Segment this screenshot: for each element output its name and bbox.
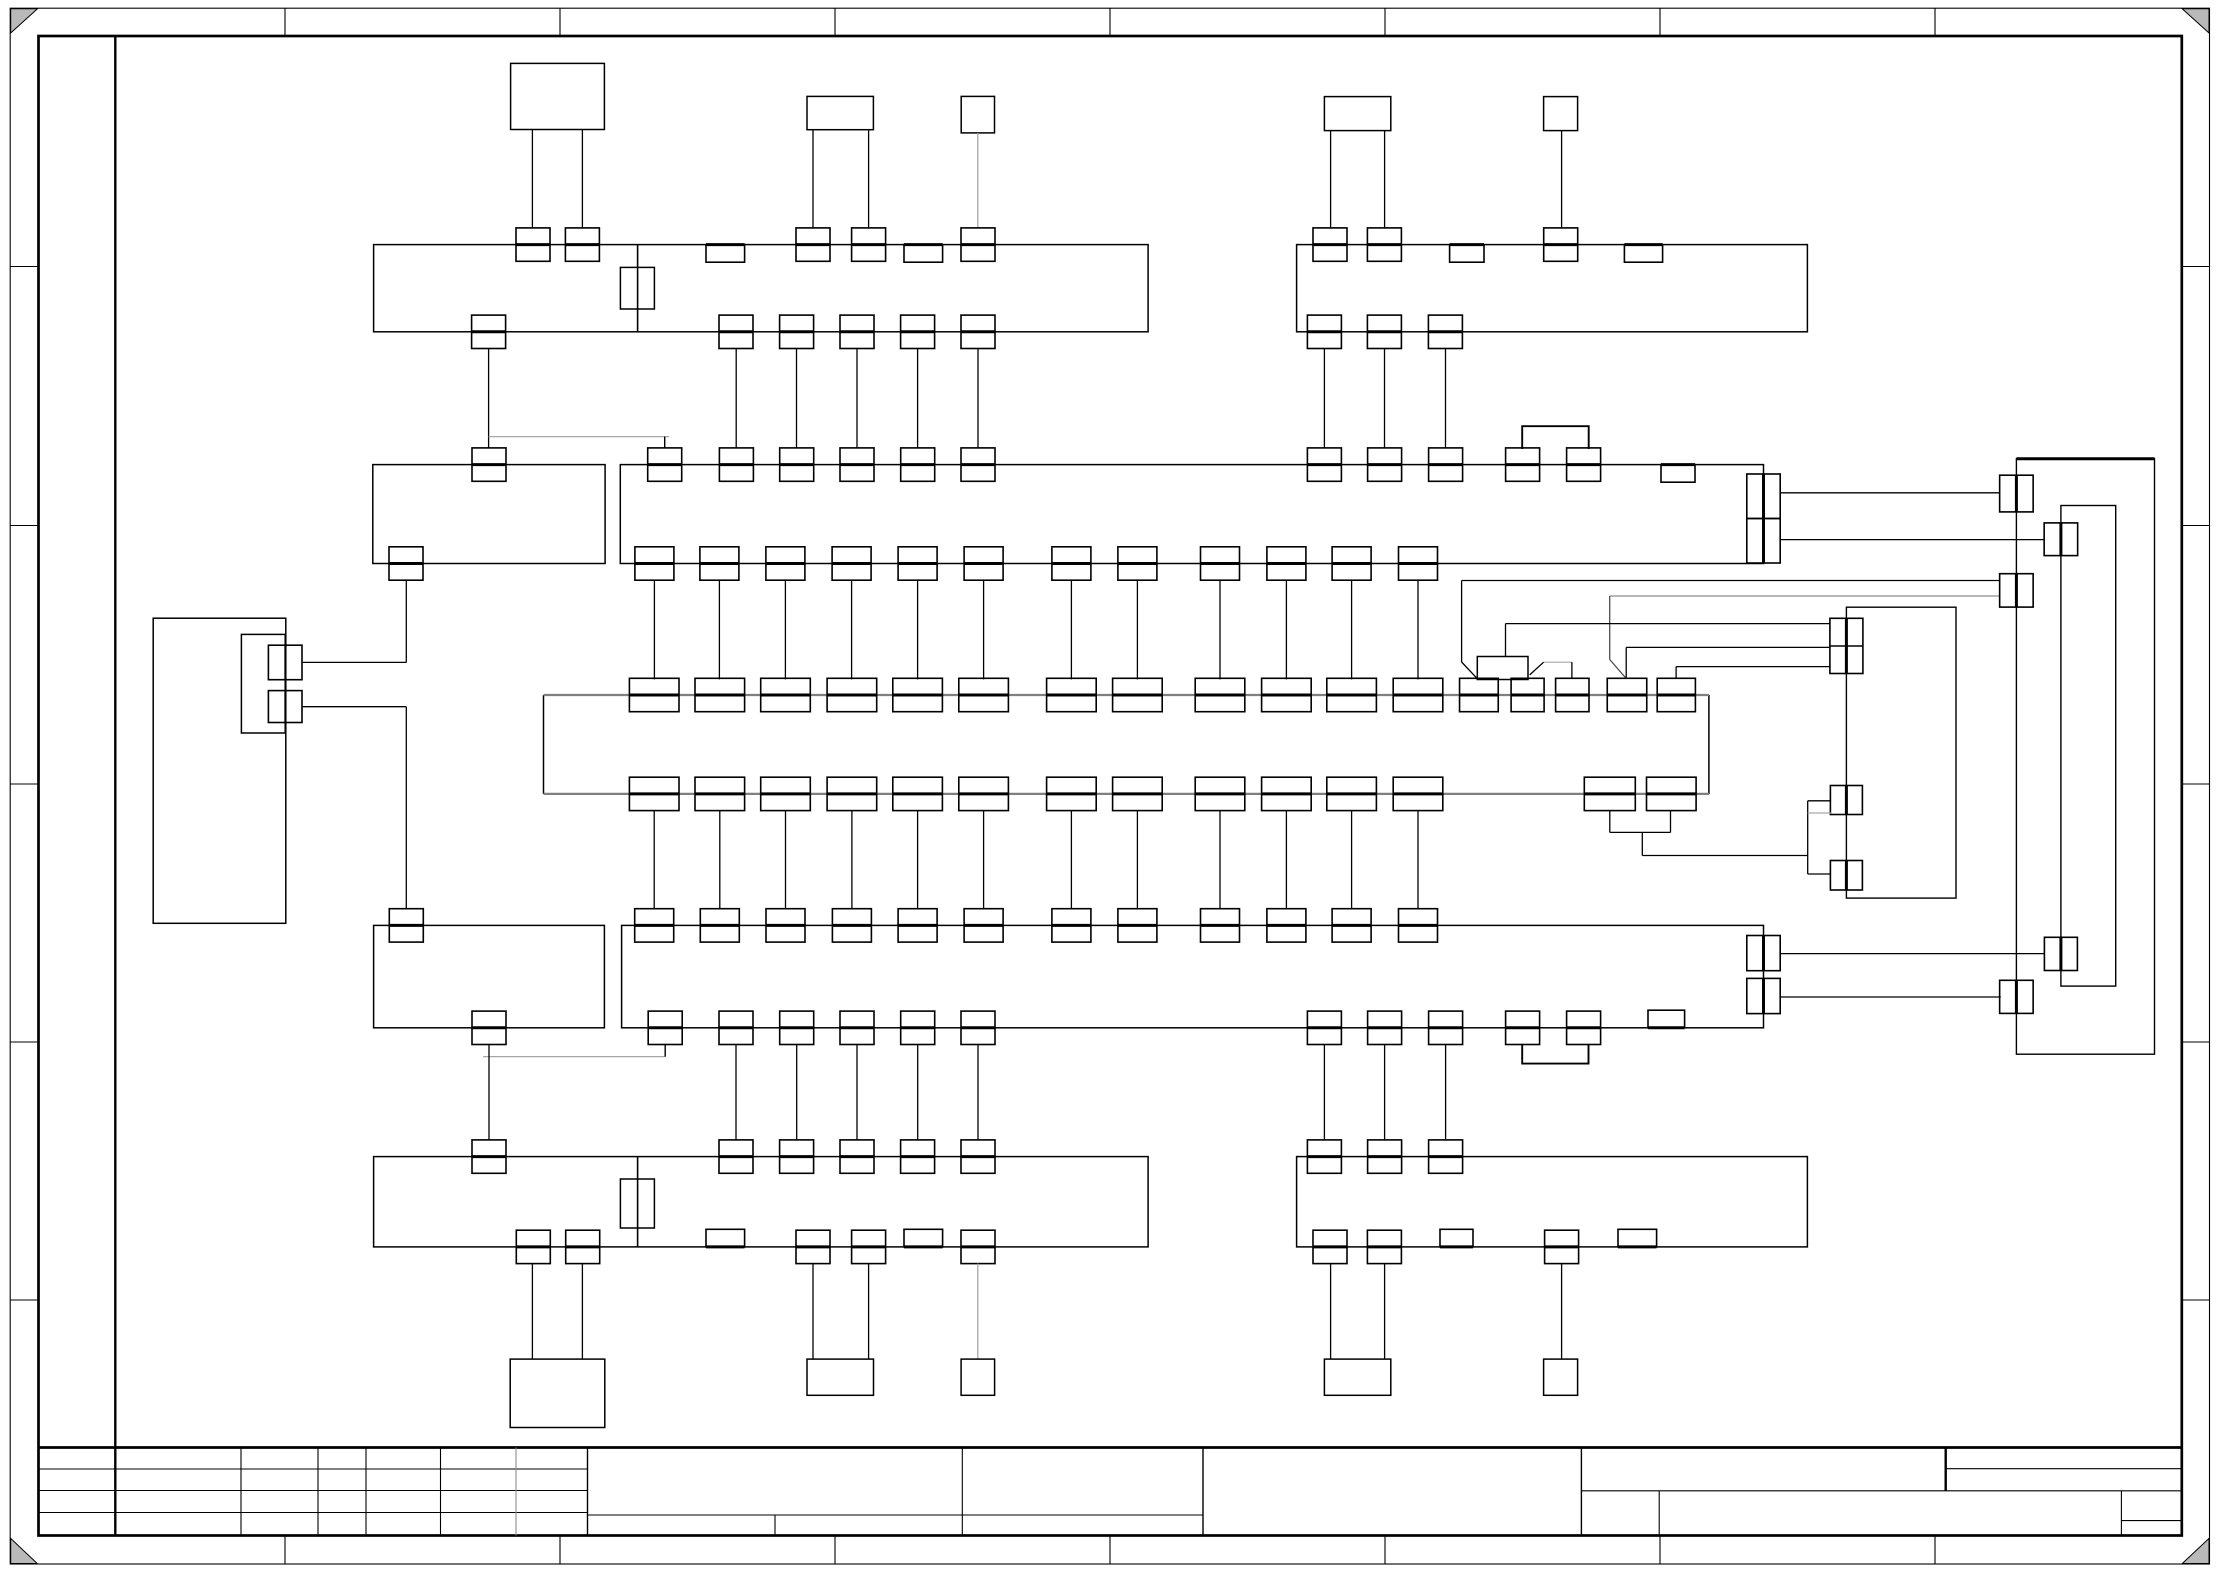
wire xyxy=(983,811,985,909)
pin pad xyxy=(961,1011,995,1044)
wire xyxy=(1561,1264,1563,1360)
corner triangle bottom-right xyxy=(2182,1538,2209,1563)
pin pad xyxy=(780,1011,814,1044)
pin pad xyxy=(1307,448,1341,481)
pin pad xyxy=(1368,1011,1402,1044)
pin pad xyxy=(1195,777,1245,810)
wire xyxy=(1323,1045,1325,1140)
jumper bridge over row2 pads xyxy=(1522,426,1589,449)
pin pad xyxy=(1307,1140,1341,1173)
pin pad xyxy=(964,547,1003,580)
wire xyxy=(856,349,858,449)
pin pad xyxy=(1313,1230,1347,1263)
pin pad xyxy=(1399,547,1438,580)
pin pad xyxy=(1429,1011,1463,1044)
pin pad xyxy=(1327,777,1377,810)
pin pad xyxy=(961,448,995,481)
pin pad (unconnected) xyxy=(904,245,943,263)
wire xyxy=(735,1045,737,1140)
wire xyxy=(719,811,721,909)
connector box T4 xyxy=(1324,97,1390,131)
pin pad xyxy=(1368,1140,1402,1173)
pin pad xyxy=(1262,777,1312,810)
pin pad xyxy=(1201,547,1240,580)
pin pad xyxy=(1747,474,1780,519)
corner triangle top-left xyxy=(11,9,38,33)
wire: E-block pad1 to row2 pad xyxy=(302,661,406,663)
pin pad xyxy=(893,678,943,711)
pin pad xyxy=(840,1011,874,1044)
row6 left connector box xyxy=(374,1157,1149,1247)
wire xyxy=(851,811,853,909)
wire xyxy=(977,349,979,449)
gray net line lower-left xyxy=(483,1056,665,1058)
wire xyxy=(796,349,798,449)
pin pad xyxy=(565,228,599,261)
pin pad xyxy=(796,1230,830,1263)
pin pad xyxy=(796,228,830,261)
pin pad xyxy=(472,315,506,348)
net W4 xyxy=(1626,646,1830,648)
wire stub xyxy=(664,1045,666,1057)
row6 key element xyxy=(620,1179,654,1228)
pin pad xyxy=(1747,936,1780,971)
pin pad xyxy=(719,1140,753,1173)
wire xyxy=(1417,580,1419,680)
pin pad xyxy=(472,1140,506,1173)
connector box B3 xyxy=(961,1359,995,1395)
wire xyxy=(1323,349,1325,449)
pin pad xyxy=(1545,1230,1579,1263)
pin pad xyxy=(761,678,811,711)
pin pad (unconnected) xyxy=(1450,245,1484,263)
pin pad xyxy=(1332,547,1371,580)
wire xyxy=(1136,580,1138,680)
pin pad xyxy=(1367,1230,1401,1263)
pin pad xyxy=(1052,909,1091,942)
net W3 xyxy=(1506,623,1831,625)
pin pad xyxy=(766,547,805,580)
pin pad xyxy=(1118,547,1157,580)
pin pad xyxy=(840,448,874,481)
margin zone ticks top/bottom xyxy=(284,8,286,36)
pin pad xyxy=(1511,678,1544,711)
pin pad xyxy=(827,777,877,810)
wire xyxy=(917,811,919,909)
pin pad xyxy=(1567,1011,1601,1044)
pin pad xyxy=(1267,547,1306,580)
pin pad xyxy=(961,1230,995,1263)
pin pad xyxy=(1428,315,1462,348)
pin pad xyxy=(1393,678,1443,711)
wire xyxy=(785,811,787,909)
pin pad xyxy=(648,448,682,481)
wire xyxy=(653,811,655,909)
margin zone ticks left/right xyxy=(10,266,38,268)
stacked pad rect xyxy=(1477,657,1528,680)
row1 key element xyxy=(620,267,654,309)
wire xyxy=(1136,811,1138,909)
connector box T2 xyxy=(807,96,873,129)
pin pad xyxy=(901,1011,935,1044)
pin pad xyxy=(1113,777,1163,810)
pin pad xyxy=(629,678,679,711)
pin pad xyxy=(780,315,814,348)
wire xyxy=(531,1264,533,1360)
pin pad xyxy=(1567,448,1601,481)
pin pad xyxy=(761,777,811,810)
pin pad xyxy=(961,1140,995,1173)
pin pad xyxy=(1657,678,1695,711)
wire stub xyxy=(664,437,666,449)
pin pad xyxy=(832,547,871,580)
wire xyxy=(1351,580,1353,680)
wire xyxy=(1330,131,1332,229)
pin pad xyxy=(1367,315,1401,348)
mid-right connector box xyxy=(1846,607,1956,898)
wire xyxy=(718,580,720,680)
pin pad xyxy=(964,909,1003,942)
pin pad xyxy=(1429,1140,1463,1173)
net W1 xyxy=(1462,580,2001,582)
pin pad xyxy=(852,228,886,261)
pin pad xyxy=(472,448,506,481)
center bus box xyxy=(543,695,545,794)
pin pad xyxy=(1367,228,1401,261)
right panel inner box xyxy=(2061,506,2116,987)
pin pad xyxy=(1118,909,1157,942)
pin pad xyxy=(1544,228,1578,261)
pin pad xyxy=(832,909,871,942)
pin pad xyxy=(719,448,753,481)
connector box T1 xyxy=(511,63,605,129)
wire xyxy=(1219,580,1221,680)
net W2 (gray) xyxy=(1610,595,2000,597)
wire xyxy=(653,580,655,680)
pin pad xyxy=(1556,678,1589,711)
row1 right connector box xyxy=(1297,245,1808,332)
pin pad xyxy=(1267,909,1306,942)
wire xyxy=(868,1264,870,1360)
wire xyxy=(784,580,786,680)
right panel top edge (thick) xyxy=(2016,457,2154,460)
pin pad xyxy=(1607,678,1647,711)
pin pad xyxy=(961,228,995,261)
wire xyxy=(917,1045,919,1140)
pin pad xyxy=(1584,777,1635,810)
row5 long connector box xyxy=(622,925,1764,1027)
pin pad xyxy=(1262,678,1312,711)
wire xyxy=(1780,996,2001,998)
wire xyxy=(1219,811,1221,909)
pin pad xyxy=(700,909,739,942)
pin pad xyxy=(959,678,1009,711)
pin pad xyxy=(648,1011,682,1044)
pin pad xyxy=(1747,519,1780,564)
title block column dividers xyxy=(240,1448,242,1536)
pin pad xyxy=(695,678,745,711)
pin pad pair PR3 xyxy=(1830,861,1862,891)
wire xyxy=(1070,580,1072,680)
pin pad xyxy=(719,315,753,348)
pin pad xyxy=(635,909,674,942)
pin pad xyxy=(268,645,302,680)
pin pad xyxy=(893,777,943,810)
wire xyxy=(812,1264,814,1360)
pin pad xyxy=(898,909,937,942)
wire: E-block pad2 to row5 pad xyxy=(302,706,406,708)
wire xyxy=(812,130,814,229)
pin pad (unconnected) xyxy=(1618,1229,1657,1247)
pin pad xyxy=(1506,448,1540,481)
pin pad xyxy=(566,1230,600,1263)
pin pad xyxy=(516,228,550,261)
pin pad xyxy=(1307,1011,1341,1044)
pin pad xyxy=(961,315,995,348)
wire xyxy=(1445,1045,1447,1140)
pin pad xyxy=(1460,678,1499,711)
connector box B1 xyxy=(510,1359,605,1427)
left device inner box xyxy=(241,634,285,733)
pin pad xyxy=(268,691,302,723)
wire xyxy=(796,1045,798,1140)
wire xyxy=(488,349,490,449)
pin pad xyxy=(1052,547,1091,580)
pin pad xyxy=(1429,448,1463,481)
pin pad xyxy=(389,547,423,580)
wire xyxy=(1417,811,1419,909)
pin pad pair PP2 xyxy=(2044,523,2077,556)
wire xyxy=(1384,1264,1386,1360)
wire xyxy=(977,1045,979,1140)
right panel box xyxy=(2016,459,2154,1054)
wire xyxy=(1445,349,1447,449)
title block row lines xyxy=(39,1468,588,1470)
pin pad xyxy=(695,777,745,810)
wire xyxy=(581,130,583,229)
jumper bridge below row5 xyxy=(1522,1045,1588,1064)
wire xyxy=(983,580,985,680)
wire xyxy=(1384,131,1386,229)
wire xyxy=(1384,349,1386,449)
pin pad xyxy=(766,909,805,942)
pin pad (unconnected) xyxy=(1440,1229,1473,1247)
wire xyxy=(917,580,919,680)
wire xyxy=(1285,811,1287,909)
pin pad xyxy=(959,777,1009,810)
wire xyxy=(581,1264,583,1360)
pin pad xyxy=(700,547,739,580)
pin pad xyxy=(840,1140,874,1173)
pin pad xyxy=(719,1011,753,1044)
wire (gray) xyxy=(977,133,979,229)
wire xyxy=(917,349,919,449)
connector box T3 xyxy=(961,96,994,132)
pin pad xyxy=(1647,777,1697,810)
pin pad (unconnected) xyxy=(706,1229,745,1247)
pin pad xyxy=(1113,678,1163,711)
wire xyxy=(1780,492,2000,494)
wire (gray) xyxy=(977,1264,979,1360)
pin pad xyxy=(901,448,935,481)
pin pad xyxy=(901,315,935,348)
connector box B2 xyxy=(807,1359,874,1395)
pin pad (unconnected) xyxy=(904,1229,943,1247)
pin pad xyxy=(1506,1011,1540,1044)
pin pad (unconnected) xyxy=(706,245,745,263)
pin pad xyxy=(1047,777,1097,810)
wire xyxy=(1330,1264,1332,1360)
pin pad pair PP1 xyxy=(2000,475,2034,512)
row5 left box xyxy=(374,925,605,1027)
pin pad xyxy=(1393,777,1443,810)
wire xyxy=(1780,953,2045,955)
corner triangle bottom-left xyxy=(11,1538,38,1563)
row6 right connector box xyxy=(1297,1157,1808,1247)
net q2 xyxy=(1676,666,1830,668)
connector box B4 xyxy=(1324,1359,1390,1395)
pin pad xyxy=(852,1230,886,1263)
pin pad xyxy=(1368,448,1402,481)
pin pad (unconnected) xyxy=(1648,1010,1685,1028)
pin pad xyxy=(1201,909,1240,942)
wire xyxy=(1384,1045,1386,1140)
left column divider xyxy=(114,36,116,1536)
pin pad xyxy=(1195,678,1245,711)
wire xyxy=(851,580,853,680)
wire xyxy=(531,130,533,229)
wires: bridge net to PR2/PR3 xyxy=(1609,811,1611,833)
wire xyxy=(1780,539,2044,541)
pin pad xyxy=(629,777,679,810)
pin pad xyxy=(827,678,877,711)
pin pad xyxy=(635,547,674,580)
connector box B5 xyxy=(1544,1359,1578,1395)
wire xyxy=(1351,811,1353,909)
gray stub net xyxy=(1544,661,1572,663)
pin pad xyxy=(1047,678,1097,711)
row2 left box xyxy=(373,465,605,564)
wire xyxy=(488,1045,490,1140)
corner triangle top-right xyxy=(2182,9,2209,33)
pin pad xyxy=(780,1140,814,1173)
pin pad xyxy=(901,1140,935,1173)
pin pad xyxy=(472,1011,506,1044)
pin pad (unconnected) xyxy=(1624,245,1662,263)
wire xyxy=(1070,811,1072,909)
wire xyxy=(1285,580,1287,680)
pin pad xyxy=(1399,909,1438,942)
wire xyxy=(856,1045,858,1140)
pin pad pair PP3 xyxy=(2000,574,2034,607)
row1 left connector box xyxy=(374,245,1149,332)
pin pad xyxy=(1313,228,1347,261)
pin pad xyxy=(898,547,937,580)
wire xyxy=(735,349,737,449)
pin pad xyxy=(1307,315,1341,348)
pin pad xyxy=(1747,978,1780,1013)
pin pad xyxy=(516,1230,550,1263)
pin pad xyxy=(840,315,874,348)
pin pad pair PP4 xyxy=(2044,937,2077,970)
wire xyxy=(868,130,870,229)
pin pad xyxy=(389,909,423,942)
row2 long connector box xyxy=(620,465,1763,564)
wire xyxy=(1561,131,1563,229)
pin pad xyxy=(1332,909,1371,942)
connector box T5 xyxy=(1544,97,1578,131)
pin pad xyxy=(780,448,814,481)
left device outer box xyxy=(153,618,286,923)
title block top line xyxy=(39,1446,2182,1449)
pin pad pair PP5 xyxy=(2000,980,2034,1013)
pin pad pair PR2 xyxy=(1830,786,1862,815)
pin pad pair PR1 xyxy=(1830,618,1863,673)
gray net line upper-left xyxy=(489,436,669,438)
pin pad xyxy=(1327,678,1377,711)
pin pad (unconnected) xyxy=(1661,465,1695,483)
